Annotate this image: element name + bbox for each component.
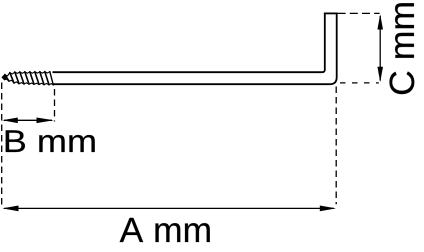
extension line left (dashed) — [1, 83, 3, 205]
arrowhead C bottom — [377, 67, 383, 82]
arrowhead B right — [37, 118, 54, 124]
arrowhead A right — [320, 206, 336, 212]
thread bottom scalloped outline — [2, 78, 53, 85]
label A mm — [120, 218, 210, 242]
shank bottom line — [53, 13, 337, 84]
thread end line — [50, 72, 54, 85]
dimension line B — [2, 118, 54, 124]
dimension C shaft — [379, 16, 381, 81]
arrowhead C top — [377, 14, 383, 29]
arrowhead B left — [2, 118, 18, 124]
extension line right (dashed) — [335, 87, 337, 205]
extension line top (dashed) — [338, 12, 380, 14]
dimension line A — [2, 206, 336, 212]
extension line bottom right (dashed) — [340, 82, 379, 84]
label C mm — [390, 3, 415, 94]
arrowhead A left — [2, 206, 18, 212]
extension line B end (dashed) — [54, 89, 56, 122]
label B mm — [6, 130, 95, 152]
thread top scalloped outline — [2, 72, 50, 78]
screw thread — [2, 72, 53, 85]
dimension B shaft — [4, 119, 52, 121]
dimension A shaft — [4, 207, 334, 209]
screw tip — [2, 75, 6, 80]
hook top cap — [324, 12, 338, 14]
shank top line — [53, 13, 325, 72]
thread crest hatching — [5, 72, 49, 85]
dimension line C — [377, 14, 383, 82]
